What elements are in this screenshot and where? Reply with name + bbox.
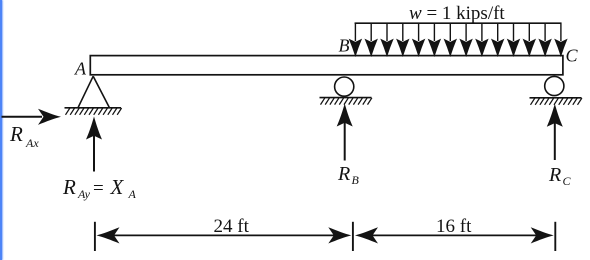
reaction arrow R_C (vertical) xyxy=(547,104,563,160)
node label A xyxy=(74,59,87,79)
label R_C xyxy=(548,164,572,188)
svg-text:Ay: Ay xyxy=(77,187,91,201)
pin support at A (triangle) xyxy=(78,76,109,107)
dimension line 24 ft (A to B) xyxy=(97,227,352,243)
svg-text:A: A xyxy=(74,59,87,79)
svg-text:A: A xyxy=(128,187,137,201)
dimension tick at A xyxy=(94,222,96,251)
label R_Ay = X_A xyxy=(62,175,137,201)
beam A-C (rectangle) xyxy=(90,56,563,75)
svg-text:w = 1 kips/ft: w = 1 kips/ft xyxy=(409,3,505,24)
left blue page border xyxy=(0,0,2,260)
svg-text:R: R xyxy=(548,164,561,186)
dimension line 16 ft (B to C) xyxy=(355,227,554,243)
label R_B xyxy=(337,163,360,187)
ground line at C xyxy=(530,97,582,99)
roller support at C (circle) xyxy=(545,76,564,95)
load value label w = 1 kips/ft xyxy=(409,3,505,24)
dimension label 16 ft xyxy=(436,216,472,237)
svg-text:B: B xyxy=(339,36,350,56)
ground line at B xyxy=(320,97,372,99)
dimension tick at B xyxy=(352,222,354,251)
svg-text:R: R xyxy=(337,163,350,185)
dimension label 24 ft xyxy=(214,216,250,237)
dimension tick at C xyxy=(554,222,556,251)
node label B xyxy=(339,36,350,56)
svg-text:=: = xyxy=(93,178,104,199)
svg-text:16 ft: 16 ft xyxy=(436,216,472,237)
svg-text:C: C xyxy=(566,46,579,66)
label R_Ax xyxy=(9,122,39,150)
svg-text:R: R xyxy=(9,122,23,146)
svg-text:B: B xyxy=(352,173,360,187)
ground line at A xyxy=(65,107,122,109)
svg-text:X: X xyxy=(110,175,125,199)
svg-text:R: R xyxy=(62,175,76,199)
reaction arrow R_Ay (vertical) xyxy=(86,117,102,172)
node label C xyxy=(566,46,579,66)
ground hatching at B xyxy=(321,98,372,105)
ground hatching at A xyxy=(66,108,122,115)
svg-text:Ax: Ax xyxy=(25,136,39,150)
distributed load top line xyxy=(355,22,562,24)
reaction arrow R_B (vertical) xyxy=(337,104,353,161)
reaction arrow R_Ax (horizontal) xyxy=(2,109,62,125)
svg-text:24 ft: 24 ft xyxy=(214,216,250,237)
svg-text:C: C xyxy=(563,174,572,188)
roller support at B (circle) xyxy=(335,77,354,96)
ground hatching at C xyxy=(531,98,582,105)
distributed load arrows (14) xyxy=(350,23,566,55)
